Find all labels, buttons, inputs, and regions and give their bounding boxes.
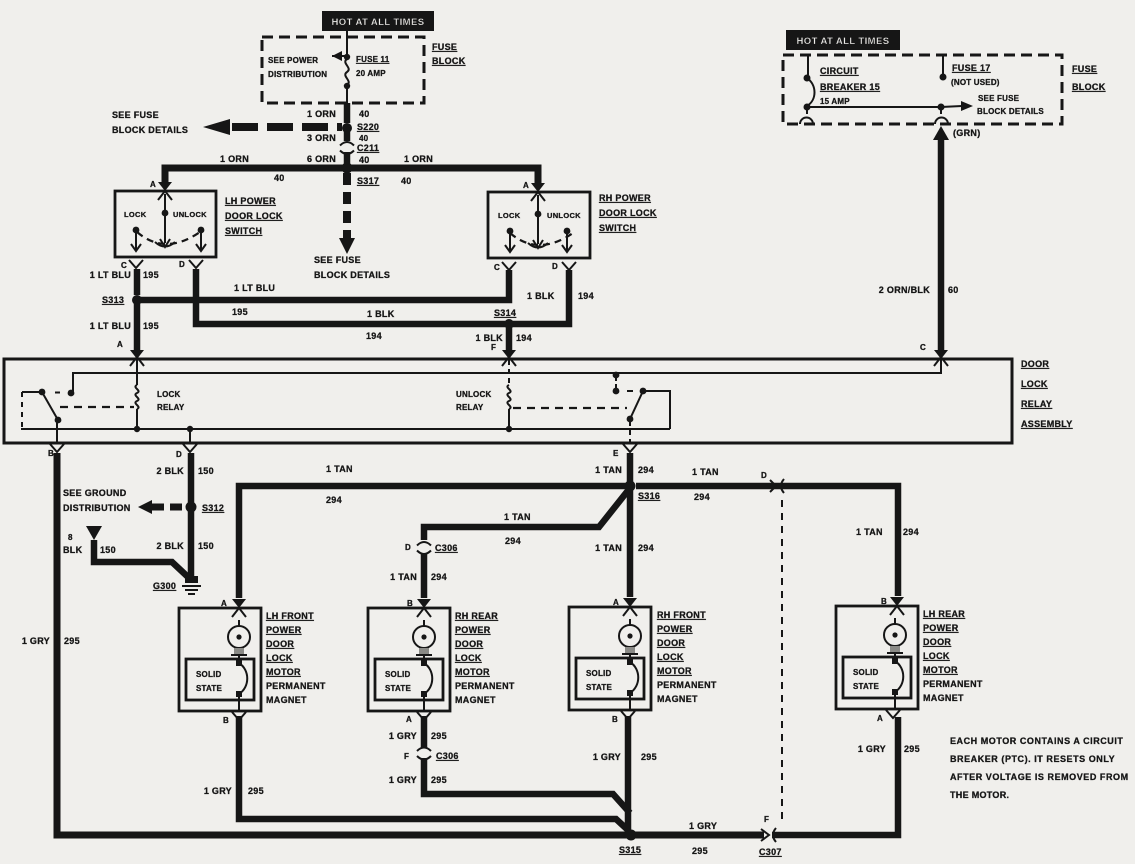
svg-text:295: 295 — [248, 786, 264, 796]
svg-text:194: 194 — [516, 333, 532, 343]
fuse block (right, dashed box) — [783, 55, 1062, 124]
svg-text:RELAY: RELAY — [157, 403, 185, 412]
svg-text:294: 294 — [326, 495, 342, 505]
svg-text:D: D — [176, 450, 182, 459]
svg-text:LOCK: LOCK — [923, 651, 950, 661]
svg-text:150: 150 — [198, 466, 214, 476]
circuit breaker 15 — [800, 56, 815, 124]
wire 1 ORN 40 (left branch to LH switch) — [165, 154, 347, 183]
wire 1 ORN 40 (right branch to RH switch) — [347, 154, 538, 186]
svg-text:LH FRONT: LH FRONT — [266, 611, 314, 621]
svg-text:294: 294 — [638, 465, 654, 475]
svg-text:FUSE 17: FUSE 17 — [952, 63, 991, 73]
label RH REAR POWER DOOR LOCK MOTOR — [455, 611, 515, 705]
svg-text:D: D — [552, 262, 558, 271]
LH rear motor pin A — [877, 710, 900, 723]
svg-text:DOOR: DOOR — [266, 639, 294, 649]
LH rear motor pin B — [881, 597, 904, 615]
LH rear motor symbol — [884, 618, 906, 653]
svg-text:UNLOCK: UNLOCK — [456, 390, 491, 399]
svg-text:A: A — [613, 598, 619, 607]
svg-text:PERMANENT: PERMANENT — [266, 681, 326, 691]
splice S313 — [102, 295, 142, 305]
svg-text:HOT AT ALL TIMES: HOT AT ALL TIMES — [797, 36, 890, 47]
wire 6 ORN 40 (C211 to S317) — [307, 152, 370, 165]
svg-text:BREAKER (PTC). IT RESETS ONLY: BREAKER (PTC). IT RESETS ONLY — [950, 754, 1115, 764]
svg-text:150: 150 — [198, 541, 214, 551]
text SEE POWER DISTRIBUTION — [268, 56, 327, 79]
switch LH power door lock (box) — [115, 191, 216, 257]
RH switch actuator — [528, 195, 548, 248]
LH switch pin D — [179, 260, 203, 269]
splice S316 — [625, 481, 661, 502]
svg-text:LOCK: LOCK — [157, 390, 180, 399]
svg-text:C211: C211 — [357, 143, 379, 153]
motor LH rear power door lock (box) — [836, 606, 918, 709]
svg-text:POWER: POWER — [657, 624, 693, 634]
arrow SEE FUSE BLOCK DETAILS (upper left) — [112, 110, 342, 135]
svg-text:DOOR: DOOR — [657, 638, 685, 648]
svg-text:MOTOR: MOTOR — [266, 667, 301, 677]
fuse 17 stub — [940, 56, 1000, 87]
LH switch actuator — [155, 194, 175, 247]
svg-text:SEE FUSE: SEE FUSE — [314, 255, 361, 265]
LH switch lock contact — [131, 227, 141, 251]
LH switch unlock contact — [196, 227, 206, 251]
svg-text:C: C — [920, 343, 926, 352]
svg-text:40: 40 — [359, 134, 369, 143]
svg-text:MAGNET: MAGNET — [657, 694, 698, 704]
svg-text:1 GRY: 1 GRY — [22, 636, 50, 646]
svg-text:S220: S220 — [357, 122, 379, 132]
svg-text:RH POWER: RH POWER — [599, 193, 651, 203]
label HOT AT ALL TIMES (right) — [786, 30, 900, 50]
wire 1 BLK 194 (LH D to S314) — [196, 269, 505, 341]
svg-text:CIRCUIT: CIRCUIT — [820, 66, 859, 76]
wire 1 GRY 295 (LH front B to S315) — [204, 716, 629, 831]
svg-text:DOOR: DOOR — [923, 637, 951, 647]
svg-text:15 AMP: 15 AMP — [820, 97, 850, 106]
svg-text:6 ORN: 6 ORN — [307, 154, 336, 164]
label FUSE BLOCK (left) — [432, 42, 466, 66]
ground G300 — [153, 576, 201, 594]
wire 1 GRY 295 (C306 to S315) — [389, 758, 630, 813]
label RH POWER DOOR LOCK SWITCH — [599, 193, 657, 233]
splice S314 — [494, 308, 516, 329]
svg-text:2 ORN/BLK: 2 ORN/BLK — [879, 285, 930, 295]
svg-text:LH REAR: LH REAR — [923, 609, 965, 619]
RH switch pin D — [552, 262, 576, 271]
wire 1 GRY 295 (RH rear A to C306) — [389, 716, 447, 748]
wire 2 ORN/BLK 60 (fuse block to relay pin C) — [879, 126, 959, 351]
lock relay switch — [22, 389, 74, 443]
svg-text:B: B — [223, 716, 229, 725]
svg-text:DOOR LOCK: DOOR LOCK — [599, 208, 657, 218]
svg-text:UNLOCK: UNLOCK — [547, 211, 581, 220]
svg-text:LOCK: LOCK — [266, 653, 293, 663]
svg-text:(GRN): (GRN) — [953, 128, 981, 138]
svg-text:294: 294 — [903, 527, 919, 537]
svg-text:D: D — [405, 543, 411, 552]
svg-text:40: 40 — [359, 109, 370, 119]
svg-text:A: A — [117, 340, 123, 349]
svg-text:POWER: POWER — [266, 625, 302, 635]
svg-text:C: C — [121, 261, 127, 270]
svg-text:SWITCH: SWITCH — [225, 226, 262, 236]
wire 1 GRY 295 (relay B to bottom rail) — [22, 453, 764, 835]
svg-text:F: F — [491, 343, 496, 352]
switch RH power door lock (box) — [488, 192, 590, 258]
svg-text:LH POWER: LH POWER — [225, 196, 276, 206]
unlock relay switch — [613, 372, 670, 443]
wire 1 GRY 295 (S315 to C307) — [689, 821, 717, 856]
svg-text:LOCK: LOCK — [1021, 379, 1048, 389]
RH switch unlock contact — [562, 228, 572, 252]
wire 1 LT BLU 195 (LH C to S313) — [90, 269, 159, 295]
RH front motor solid state unit — [576, 654, 644, 710]
relay pin E — [613, 444, 637, 458]
svg-text:194: 194 — [578, 291, 594, 301]
svg-text:A: A — [877, 714, 883, 723]
svg-text:BLOCK: BLOCK — [1072, 82, 1106, 92]
svg-text:295: 295 — [904, 744, 920, 754]
label HOT AT ALL TIMES (left) — [322, 11, 434, 31]
label LH REAR POWER DOOR LOCK MOTOR — [923, 609, 983, 703]
svg-text:C306: C306 — [436, 751, 459, 761]
connector C306 (top, pin D) — [405, 542, 458, 554]
svg-text:B: B — [881, 597, 887, 606]
wire 1 LT BLU 195 (S313 to relay pin A) — [90, 300, 159, 350]
svg-text:LOCK: LOCK — [498, 211, 521, 220]
svg-text:UNLOCK: UNLOCK — [173, 210, 207, 219]
RH switch lock contact — [505, 228, 515, 252]
svg-text:FUSE 11: FUSE 11 — [356, 55, 390, 64]
relay pin F — [491, 343, 516, 366]
svg-text:1 TAN: 1 TAN — [595, 543, 622, 553]
svg-text:1 TAN: 1 TAN — [390, 572, 417, 582]
wire CB to fuse block details arrow — [807, 94, 1044, 116]
connector C211 — [340, 142, 379, 154]
svg-text:B: B — [48, 449, 54, 458]
svg-text:S316: S316 — [638, 491, 660, 501]
svg-text:1 GRY: 1 GRY — [389, 731, 417, 741]
svg-text:194: 194 — [366, 331, 382, 341]
svg-text:295: 295 — [431, 775, 447, 785]
relay pin D — [176, 426, 197, 459]
wire 3 ORN (S220 to C211) — [307, 128, 369, 143]
svg-text:LOCK: LOCK — [124, 210, 147, 219]
wire 1 TAN 294 (relay E to S316) — [595, 453, 654, 482]
svg-text:SEE FUSE: SEE FUSE — [978, 94, 1020, 103]
svg-text:RH REAR: RH REAR — [455, 611, 498, 621]
door lock relay assembly (box) — [4, 359, 1012, 443]
LH switch pin C — [121, 260, 143, 270]
svg-text:1 ORN: 1 ORN — [220, 154, 249, 164]
RH rear motor pin B — [407, 599, 431, 617]
svg-text:295: 295 — [641, 752, 657, 762]
svg-text:S317: S317 — [357, 176, 379, 186]
svg-text:BLK: BLK — [63, 545, 83, 555]
svg-text:MOTOR: MOTOR — [455, 667, 490, 677]
svg-text:1 ORN: 1 ORN — [404, 154, 433, 164]
wire 1 LT BLU 195 (S313 to RH C) — [137, 270, 594, 317]
svg-text:1 LT BLU: 1 LT BLU — [90, 270, 131, 280]
connector bump at fuse block (GRN terminal) — [935, 110, 948, 124]
LH front motor solid state unit — [186, 655, 254, 711]
svg-text:60: 60 — [948, 285, 959, 295]
svg-text:PERMANENT: PERMANENT — [923, 679, 983, 689]
svg-text:1 TAN: 1 TAN — [326, 464, 353, 474]
wire 1 GRY 295 (RH front B to S315) — [593, 716, 657, 831]
svg-text:1 TAN: 1 TAN — [692, 467, 719, 477]
arrow SEE GROUND DISTRIBUTION — [63, 488, 186, 514]
svg-text:DISTRIBUTION: DISTRIBUTION — [268, 70, 327, 79]
RH switch pin C — [494, 262, 516, 272]
svg-text:POWER: POWER — [923, 623, 959, 633]
svg-text:PERMANENT: PERMANENT — [657, 680, 717, 690]
svg-text:2 BLK: 2 BLK — [156, 466, 184, 476]
svg-text:3 ORN: 3 ORN — [307, 133, 336, 143]
svg-text:195: 195 — [143, 270, 159, 280]
fuse block (left, dashed box) — [262, 37, 424, 103]
svg-text:F: F — [764, 815, 769, 824]
wire 1 ORN 40 (fuse to S220) — [307, 103, 370, 123]
lock relay coil — [134, 360, 185, 432]
svg-text:(NOT USED): (NOT USED) — [951, 78, 1000, 87]
connector D (C307 door boundary, tan wire) — [761, 471, 784, 493]
svg-text:SOLID: SOLID — [586, 669, 611, 678]
wire 1 TAN 294 (S316 left to LH front motor) — [239, 464, 630, 598]
svg-text:MAGNET: MAGNET — [455, 695, 496, 705]
svg-text:8: 8 — [68, 533, 73, 542]
svg-text:C306: C306 — [435, 543, 458, 553]
svg-text:SOLID: SOLID — [196, 670, 221, 679]
svg-text:1 GRY: 1 GRY — [689, 821, 717, 831]
RH switch travel arc (dashed) — [510, 233, 573, 245]
svg-text:STATE: STATE — [196, 684, 222, 693]
wire to fuse block details (down, dashed) — [314, 173, 390, 280]
label CIRCUIT BREAKER 15 / 15 AMP — [820, 66, 880, 106]
svg-text:195: 195 — [232, 307, 248, 317]
svg-text:EACH MOTOR CONTAINS A CIRCUIT: EACH MOTOR CONTAINS A CIRCUIT — [950, 736, 1123, 746]
svg-text:S313: S313 — [102, 295, 124, 305]
svg-text:295: 295 — [64, 636, 80, 646]
svg-text:RELAY: RELAY — [456, 403, 484, 412]
splice S315 — [619, 830, 641, 856]
svg-text:SEE POWER: SEE POWER — [268, 56, 318, 65]
svg-text:195: 195 — [143, 321, 159, 331]
LH rear motor solid state unit — [843, 653, 911, 709]
unlock relay coil — [456, 360, 512, 432]
wire 1 TAN 294 (S316 down to RH front motor pin A) — [595, 486, 654, 597]
svg-text:1 GRY: 1 GRY — [593, 752, 621, 762]
svg-text:E: E — [613, 449, 619, 458]
svg-text:FUSE: FUSE — [432, 42, 457, 52]
svg-text:STATE: STATE — [385, 684, 411, 693]
RH rear motor symbol — [413, 620, 435, 655]
svg-text:295: 295 — [692, 846, 708, 856]
svg-text:LOCK: LOCK — [657, 652, 684, 662]
svg-text:BLOCK DETAILS: BLOCK DETAILS — [112, 125, 188, 135]
label RH FRONT POWER DOOR LOCK MOTOR — [657, 610, 717, 704]
svg-text:BLOCK: BLOCK — [432, 56, 466, 66]
svg-text:1 BLK: 1 BLK — [527, 291, 555, 301]
svg-text:MOTOR: MOTOR — [923, 665, 958, 675]
RH switch pin A arrow — [523, 181, 545, 201]
LH switch travel arc (dashed) — [137, 232, 200, 244]
svg-text:BREAKER 15: BREAKER 15 — [820, 82, 880, 92]
relay pin A — [117, 340, 144, 366]
svg-text:THE MOTOR.: THE MOTOR. — [950, 790, 1009, 800]
svg-text:RH FRONT: RH FRONT — [657, 610, 706, 620]
relay pin B — [48, 444, 64, 458]
svg-text:1 GRY: 1 GRY — [204, 786, 232, 796]
LH front motor symbol — [228, 620, 250, 655]
svg-text:B: B — [407, 599, 413, 608]
svg-text:1 GRY: 1 GRY — [858, 744, 886, 754]
svg-text:BLOCK DETAILS: BLOCK DETAILS — [977, 107, 1044, 116]
svg-text:1 BLK: 1 BLK — [475, 333, 503, 343]
svg-text:F: F — [404, 752, 409, 761]
svg-text:C307: C307 — [759, 847, 782, 857]
motor RH front power door lock (box) — [569, 607, 651, 710]
LH front motor pin B — [223, 712, 246, 725]
label FUSE BLOCK (right) — [1072, 64, 1106, 92]
svg-text:294: 294 — [638, 543, 654, 553]
svg-text:B: B — [612, 715, 618, 724]
svg-text:294: 294 — [505, 536, 521, 546]
svg-text:STATE: STATE — [586, 683, 612, 692]
svg-text:DOOR: DOOR — [1021, 359, 1049, 369]
svg-text:RELAY: RELAY — [1021, 399, 1052, 409]
svg-text:C: C — [494, 263, 500, 272]
motor RH rear power door lock (box) — [368, 608, 450, 711]
svg-text:POWER: POWER — [455, 625, 491, 635]
svg-text:1 TAN: 1 TAN — [504, 512, 531, 522]
relay pin C — [920, 343, 948, 366]
RH rear motor pin A — [406, 712, 431, 724]
svg-text:AFTER VOLTAGE IS REMOVED FROM: AFTER VOLTAGE IS REMOVED FROM — [950, 772, 1129, 782]
svg-text:A: A — [406, 715, 412, 724]
wire 1 TAN 294 (branch to C306 / RH rear motor) — [424, 488, 630, 546]
RH front motor pin A — [613, 598, 637, 616]
svg-text:294: 294 — [694, 492, 710, 502]
note text (circuit breaker PTC) — [950, 736, 1129, 800]
svg-text:1 ORN: 1 ORN — [307, 109, 336, 119]
svg-text:FUSE: FUSE — [1072, 64, 1097, 74]
svg-text:SEE FUSE: SEE FUSE — [112, 110, 159, 120]
svg-text:MAGNET: MAGNET — [923, 693, 964, 703]
wire 1 BLK 194 (RH D down) — [512, 270, 569, 324]
svg-text:SOLID: SOLID — [853, 668, 878, 677]
unlock relay mechanical link (dashed) — [513, 407, 627, 409]
svg-text:2 BLK: 2 BLK — [156, 541, 184, 551]
svg-text:1 TAN: 1 TAN — [595, 465, 622, 475]
svg-text:D: D — [761, 471, 767, 480]
svg-text:SWITCH: SWITCH — [599, 223, 636, 233]
svg-text:295: 295 — [431, 731, 447, 741]
wire 1 TAN 294 (S316 right to LH rear motor) — [636, 467, 919, 596]
relay internal power rail (top) — [73, 360, 941, 393]
svg-text:40: 40 — [274, 173, 285, 183]
svg-text:SOLID: SOLID — [385, 670, 410, 679]
LH switch pin A arrow — [150, 180, 172, 200]
svg-text:STATE: STATE — [853, 682, 879, 691]
label LH POWER DOOR LOCK SWITCH — [225, 196, 283, 236]
svg-text:BLOCK DETAILS: BLOCK DETAILS — [314, 270, 390, 280]
svg-text:SEE GROUND: SEE GROUND — [63, 488, 127, 498]
svg-text:LOCK: LOCK — [455, 653, 482, 663]
RH front motor pin B — [612, 711, 635, 724]
svg-text:D: D — [179, 260, 185, 269]
svg-text:MAGNET: MAGNET — [266, 695, 307, 705]
svg-text:PERMANENT: PERMANENT — [455, 681, 515, 691]
svg-text:S314: S314 — [494, 308, 516, 318]
fuse FUSE 11 — [344, 30, 350, 103]
RH rear motor solid state unit — [375, 655, 443, 711]
door boundary dashed line — [781, 500, 783, 824]
svg-text:1 LT BLU: 1 LT BLU — [234, 283, 275, 293]
svg-text:ASSEMBLY: ASSEMBLY — [1021, 419, 1073, 429]
svg-text:A: A — [523, 181, 529, 190]
relay internal ground rail (bottom) — [21, 428, 670, 430]
LH front motor pin A — [221, 599, 246, 617]
svg-text:40: 40 — [401, 176, 412, 186]
wire 1 BLK 194 (S314 to relay pin F) — [475, 324, 531, 351]
svg-text:DOOR LOCK: DOOR LOCK — [225, 211, 283, 221]
svg-text:1 GRY: 1 GRY — [389, 775, 417, 785]
connector C307 — [759, 815, 782, 857]
wire 2 BLK 150 (relay D to S312) — [156, 453, 213, 503]
wire 1 TAN 294 (C306 to RH rear motor pin B) — [390, 553, 447, 598]
connector C306 (bottom, pin F) — [404, 748, 459, 762]
label (GRN) — [953, 128, 981, 138]
svg-text:40: 40 — [359, 155, 370, 165]
svg-text:A: A — [150, 180, 156, 189]
label DOOR LOCK RELAY ASSEMBLY — [1021, 359, 1073, 429]
svg-text:20 AMP: 20 AMP — [356, 69, 386, 78]
svg-text:MOTOR: MOTOR — [657, 666, 692, 676]
svg-text:1 LT BLU: 1 LT BLU — [90, 321, 131, 331]
svg-text:DISTRIBUTION: DISTRIBUTION — [63, 503, 131, 513]
wire 8 BLK 150 (to G300) — [63, 526, 188, 577]
svg-text:294: 294 — [431, 572, 447, 582]
svg-text:1 BLK: 1 BLK — [367, 309, 395, 319]
label FUSE 11 / 20 AMP — [356, 55, 390, 78]
motor LH front power door lock (box) — [179, 608, 261, 711]
splice S312 — [186, 502, 225, 514]
arrow to power distribution — [332, 51, 345, 61]
lock relay mechanical link (dashed) — [60, 406, 134, 408]
svg-text:A: A — [221, 599, 227, 608]
svg-text:1 TAN: 1 TAN — [856, 527, 883, 537]
svg-text:S315: S315 — [619, 845, 641, 855]
node S317 — [342, 163, 380, 187]
svg-text:S312: S312 — [202, 503, 224, 513]
svg-text:150: 150 — [100, 545, 116, 555]
svg-text:G300: G300 — [153, 581, 176, 591]
RH front motor symbol — [619, 619, 641, 654]
wire 2 BLK 150 (S312 to G300) — [156, 507, 213, 577]
splice S220 — [342, 122, 379, 133]
svg-text:HOT AT ALL TIMES: HOT AT ALL TIMES — [332, 17, 425, 28]
wire 1 GRY 295 (C307 to LH rear A) — [772, 717, 920, 835]
label LH FRONT POWER DOOR LOCK MOTOR — [266, 611, 326, 705]
svg-text:DOOR: DOOR — [455, 639, 483, 649]
